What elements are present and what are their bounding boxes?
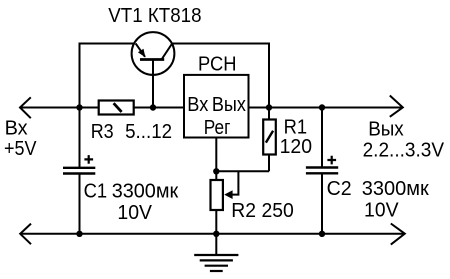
svg-text:Вых: Вых <box>212 94 246 116</box>
wire: C1 branch upper <box>79 108 81 168</box>
resistor R3 <box>99 101 134 115</box>
wire: bottom rail (common) <box>20 233 404 235</box>
svg-text:Вх: Вх <box>187 94 208 116</box>
svg-text:РСН: РСН <box>198 54 237 76</box>
label C2 3300мк <box>327 178 429 200</box>
wire: C2 branch lower <box>321 173 323 234</box>
potentiometer R2 <box>211 180 233 210</box>
label C1 3300мк <box>84 181 179 203</box>
wire: R2 wiper branch <box>230 171 238 194</box>
resistor R1 <box>263 120 276 155</box>
wire: R1 top lead <box>268 108 270 120</box>
arrow: bottom rail left <box>20 224 31 245</box>
wire: top rail right segment (VT1 collector) and drop to output node <box>172 44 269 108</box>
wire: R2 top lead <box>215 171 217 180</box>
wire: R2 bottom lead <box>215 210 217 234</box>
junction dot: output node at R1 <box>266 104 272 110</box>
svg-text:C1: C1 <box>84 181 108 203</box>
junction dot: bottom rail at C2 <box>319 231 325 237</box>
junction dot: bottom rail at ground <box>213 231 219 237</box>
svg-text:Вых: Вых <box>368 119 404 141</box>
svg-text:120: 120 <box>280 136 312 158</box>
svg-text:C2: C2 <box>327 178 352 200</box>
svg-text:VT1 КТ818: VT1 КТ818 <box>108 5 201 27</box>
svg-text:10V: 10V <box>364 199 399 221</box>
wire: top rail left segment (to VT1 emitter) <box>79 43 135 45</box>
wire: C2 branch upper <box>321 108 323 168</box>
label R3 5...12 <box>91 121 172 143</box>
wire: input rail Вх <box>20 107 184 109</box>
wire: output rail Вых <box>249 107 402 109</box>
svg-text:R3: R3 <box>91 121 114 143</box>
svg-text:2.2...3.3V: 2.2...3.3V <box>363 139 445 161</box>
svg-text:3300мк: 3300мк <box>362 178 429 200</box>
wire: mid wire from Рег node to R1 bottom <box>216 170 269 172</box>
junction dot: VT1 base node <box>150 104 156 110</box>
junction dot: bottom rail at C1 <box>76 231 82 237</box>
junction dot: Рег node <box>213 168 219 174</box>
wire: РСН Рег pin down to node <box>215 138 217 172</box>
junction dot: output node at C2 <box>319 104 325 110</box>
wire: R1 bottom lead <box>268 155 270 172</box>
capacitor C1 (electrolytic) <box>63 155 95 173</box>
svg-text:Рег: Рег <box>204 117 231 139</box>
svg-text:3300мк: 3300мк <box>112 181 179 203</box>
svg-text:Вх: Вх <box>5 117 28 139</box>
wire: ground stub <box>215 234 217 255</box>
capacitor C2 (electrolytic) <box>306 156 338 174</box>
wire: C1 branch lower <box>79 174 81 234</box>
arrow: bottom rail right <box>391 224 405 245</box>
arrow: output rail right <box>390 96 403 117</box>
svg-text:R2 250: R2 250 <box>231 200 293 222</box>
junction dot: input node <box>76 104 82 110</box>
regulator block U1 РСН <box>184 75 249 138</box>
svg-text:10V: 10V <box>117 202 152 224</box>
ground <box>194 255 238 271</box>
svg-text:+5V: +5V <box>4 138 37 160</box>
svg-text:5...12: 5...12 <box>125 121 172 143</box>
wire: left riser from input node to top rail <box>79 44 81 108</box>
arrow: input rail left <box>20 97 31 118</box>
transistor VT1 КТ818 (PNP) <box>132 32 175 107</box>
